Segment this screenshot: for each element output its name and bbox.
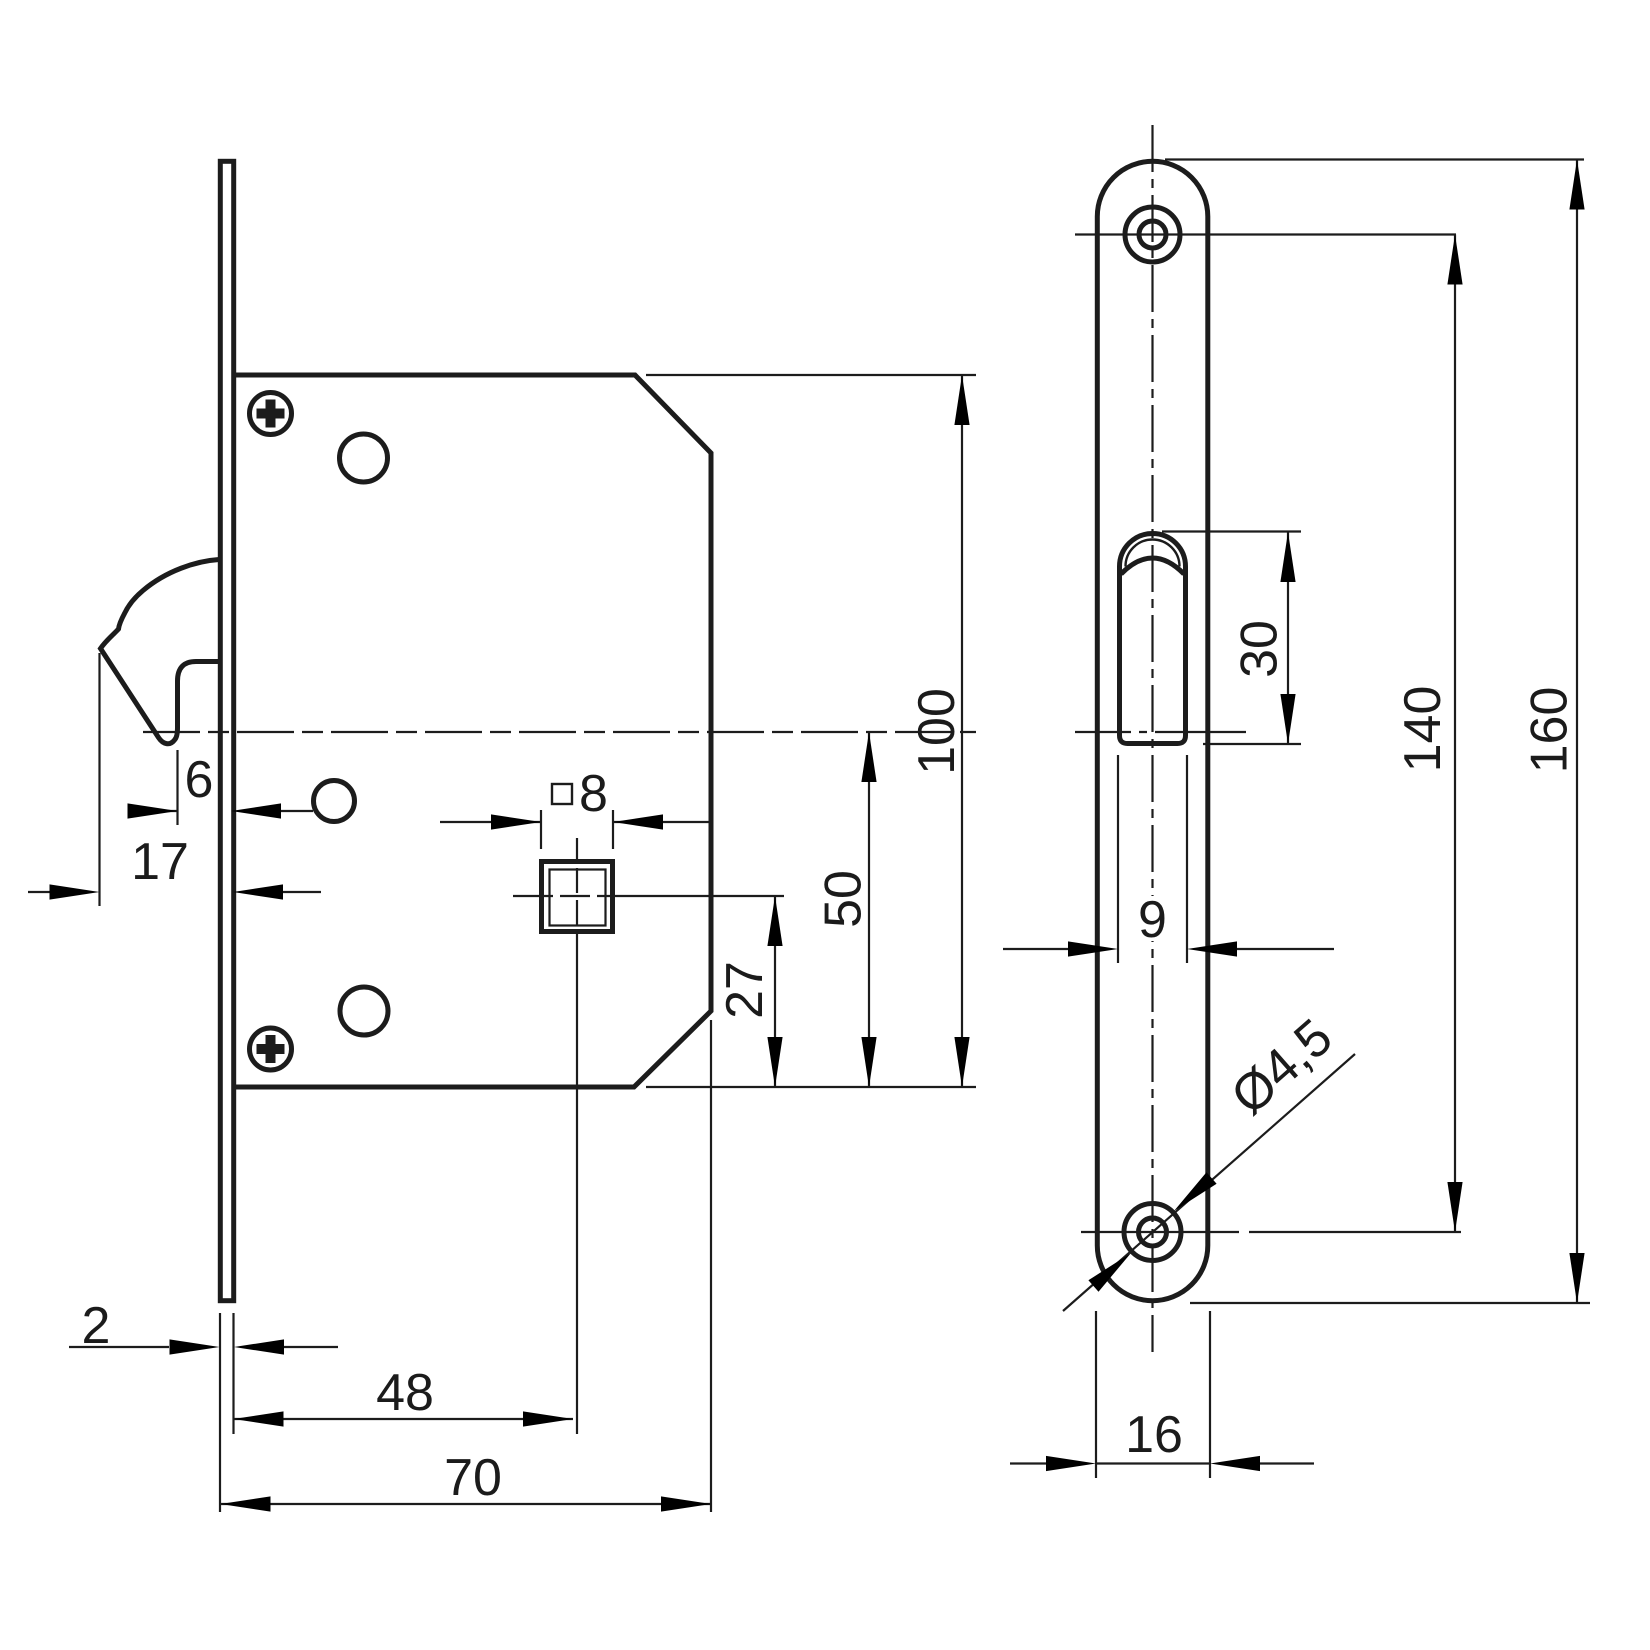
dim 48: right arrow [523, 1411, 573, 1426]
svg-text:50: 50 [815, 870, 873, 928]
screw bottom (phillips) [250, 1028, 292, 1070]
dim 6: left arrow [128, 803, 178, 818]
dim 70: right arrow [661, 1496, 711, 1511]
dim 16: extension lines [1096, 1311, 1210, 1478]
dim 30: bottom arrow [1280, 694, 1295, 744]
bottom screw hole [1139, 1218, 1167, 1246]
bottom screw outer [1124, 1204, 1181, 1261]
svg-text:2: 2 [82, 1297, 111, 1355]
svg-text:48: 48 [376, 1364, 434, 1422]
dim 30: top arrow [1280, 532, 1295, 582]
top edge extension line [646, 374, 976, 376]
dim 160: top arrow [1569, 160, 1584, 210]
dim 100: line [961, 375, 963, 1087]
hole top [340, 434, 388, 482]
dim 17: extension line [98, 653, 100, 906]
dim 50: line [868, 732, 870, 1087]
dim 70: left arrow [221, 1496, 271, 1511]
faceplate front view [1097, 161, 1208, 1300]
svg-text:70: 70 [444, 1449, 502, 1507]
dim 8: extension ticks [541, 810, 613, 849]
svg-text:8: 8 [579, 765, 608, 823]
square vertical centerline / 48-extension [576, 838, 578, 1434]
dim 8: right arrow [613, 814, 663, 829]
svg-text:140: 140 [1394, 686, 1452, 773]
dim 2: extension lines [220, 1313, 234, 1512]
dim 50: top arrow [861, 732, 876, 782]
dim 70: line [221, 1503, 712, 1505]
hole middle [314, 781, 355, 822]
dim 48: line [234, 1418, 574, 1420]
dim 9: right arrow [1187, 941, 1237, 956]
screw top (phillips) [250, 393, 292, 435]
dim 9: extension lines [1118, 755, 1187, 963]
faceplate side view [220, 161, 233, 1300]
leader line for hole diameter [1063, 1054, 1355, 1311]
top screw hole [1139, 221, 1166, 248]
plate vertical centerline [1151, 125, 1153, 1352]
dim 160: bottom arrow [1569, 1253, 1584, 1303]
dim 100: top arrow [954, 375, 969, 425]
dim 8: lines [440, 821, 710, 823]
dim 50: bottom arrow [861, 1037, 876, 1087]
dim 6: extension line [176, 750, 178, 825]
hook bolt top (front view) [1121, 558, 1184, 574]
dim 17: right arrow [233, 884, 283, 899]
plate top extension line [1165, 158, 1584, 160]
dim 16: lines [1010, 1462, 1314, 1464]
leader arrow upper [1174, 1172, 1217, 1211]
svg-text:160: 160 [1521, 687, 1579, 774]
dim 27: top arrow [767, 896, 782, 946]
dim 9: left arrow [1068, 941, 1118, 956]
centerline (spindle axis, left view) [143, 731, 976, 733]
svg-text:100: 100 [908, 688, 966, 775]
dim 6: right arrow [231, 803, 281, 818]
svg-text:9: 9 [1138, 891, 1167, 949]
dim 17: lines [28, 891, 321, 893]
lock body outline [236, 375, 711, 1087]
dim 140: bottom arrow [1447, 1182, 1462, 1232]
svg-text:27: 27 [716, 961, 774, 1019]
hook bolt (side view) [101, 560, 220, 744]
dim 30: extension lines [1162, 532, 1301, 745]
dim 2: right arrow [234, 1339, 284, 1354]
dim 100: bottom arrow [954, 1037, 969, 1087]
dim 17: left arrow [50, 884, 100, 899]
dim 140: top arrow [1447, 235, 1462, 285]
dim 48: left arrow [234, 1411, 284, 1426]
svg-text:17: 17 [131, 833, 189, 891]
dim 160: line [1576, 160, 1578, 1304]
dim 140: line [1454, 235, 1456, 1233]
dim 30: line [1287, 532, 1289, 744]
mask behind label 9 [1133, 896, 1172, 941]
dim 70: extension line right [710, 1020, 712, 1512]
hook cutout inner arc [1126, 540, 1180, 567]
hole bottom [340, 987, 388, 1035]
svg-text:30: 30 [1231, 620, 1289, 678]
square spindle hole inner [550, 870, 606, 926]
svg-text:16: 16 [1125, 1406, 1183, 1464]
dim 27: line [774, 896, 776, 1087]
top screw horizontal centerline / 140-extension [1075, 233, 1456, 235]
dim 16: right arrow [1210, 1456, 1260, 1471]
square spindle hole outer [542, 862, 613, 932]
dim 8: left arrow [491, 814, 541, 829]
dim 27: bottom arrow [767, 1037, 782, 1087]
bottom screw horizontal centerline / 140-extension [1081, 1231, 1461, 1233]
svg-text:6: 6 [185, 751, 214, 809]
label square-8 [552, 784, 572, 804]
bottom edge extension line [646, 1086, 976, 1088]
dim 2: lines [69, 1346, 338, 1348]
plate bottom extension line [1190, 1302, 1590, 1304]
dim 16: left arrow [1046, 1456, 1096, 1471]
dim 2: left arrow [170, 1339, 220, 1354]
dim 6: lines [129, 810, 313, 812]
hook cutout outline [1120, 534, 1186, 744]
top screw outer [1125, 207, 1180, 262]
square horizontal centerline / 27-extension [513, 895, 784, 897]
dim 9: lines [1003, 948, 1334, 950]
leader arrow lower [1088, 1253, 1131, 1292]
hook axis centerline (right view) [1075, 731, 1246, 733]
